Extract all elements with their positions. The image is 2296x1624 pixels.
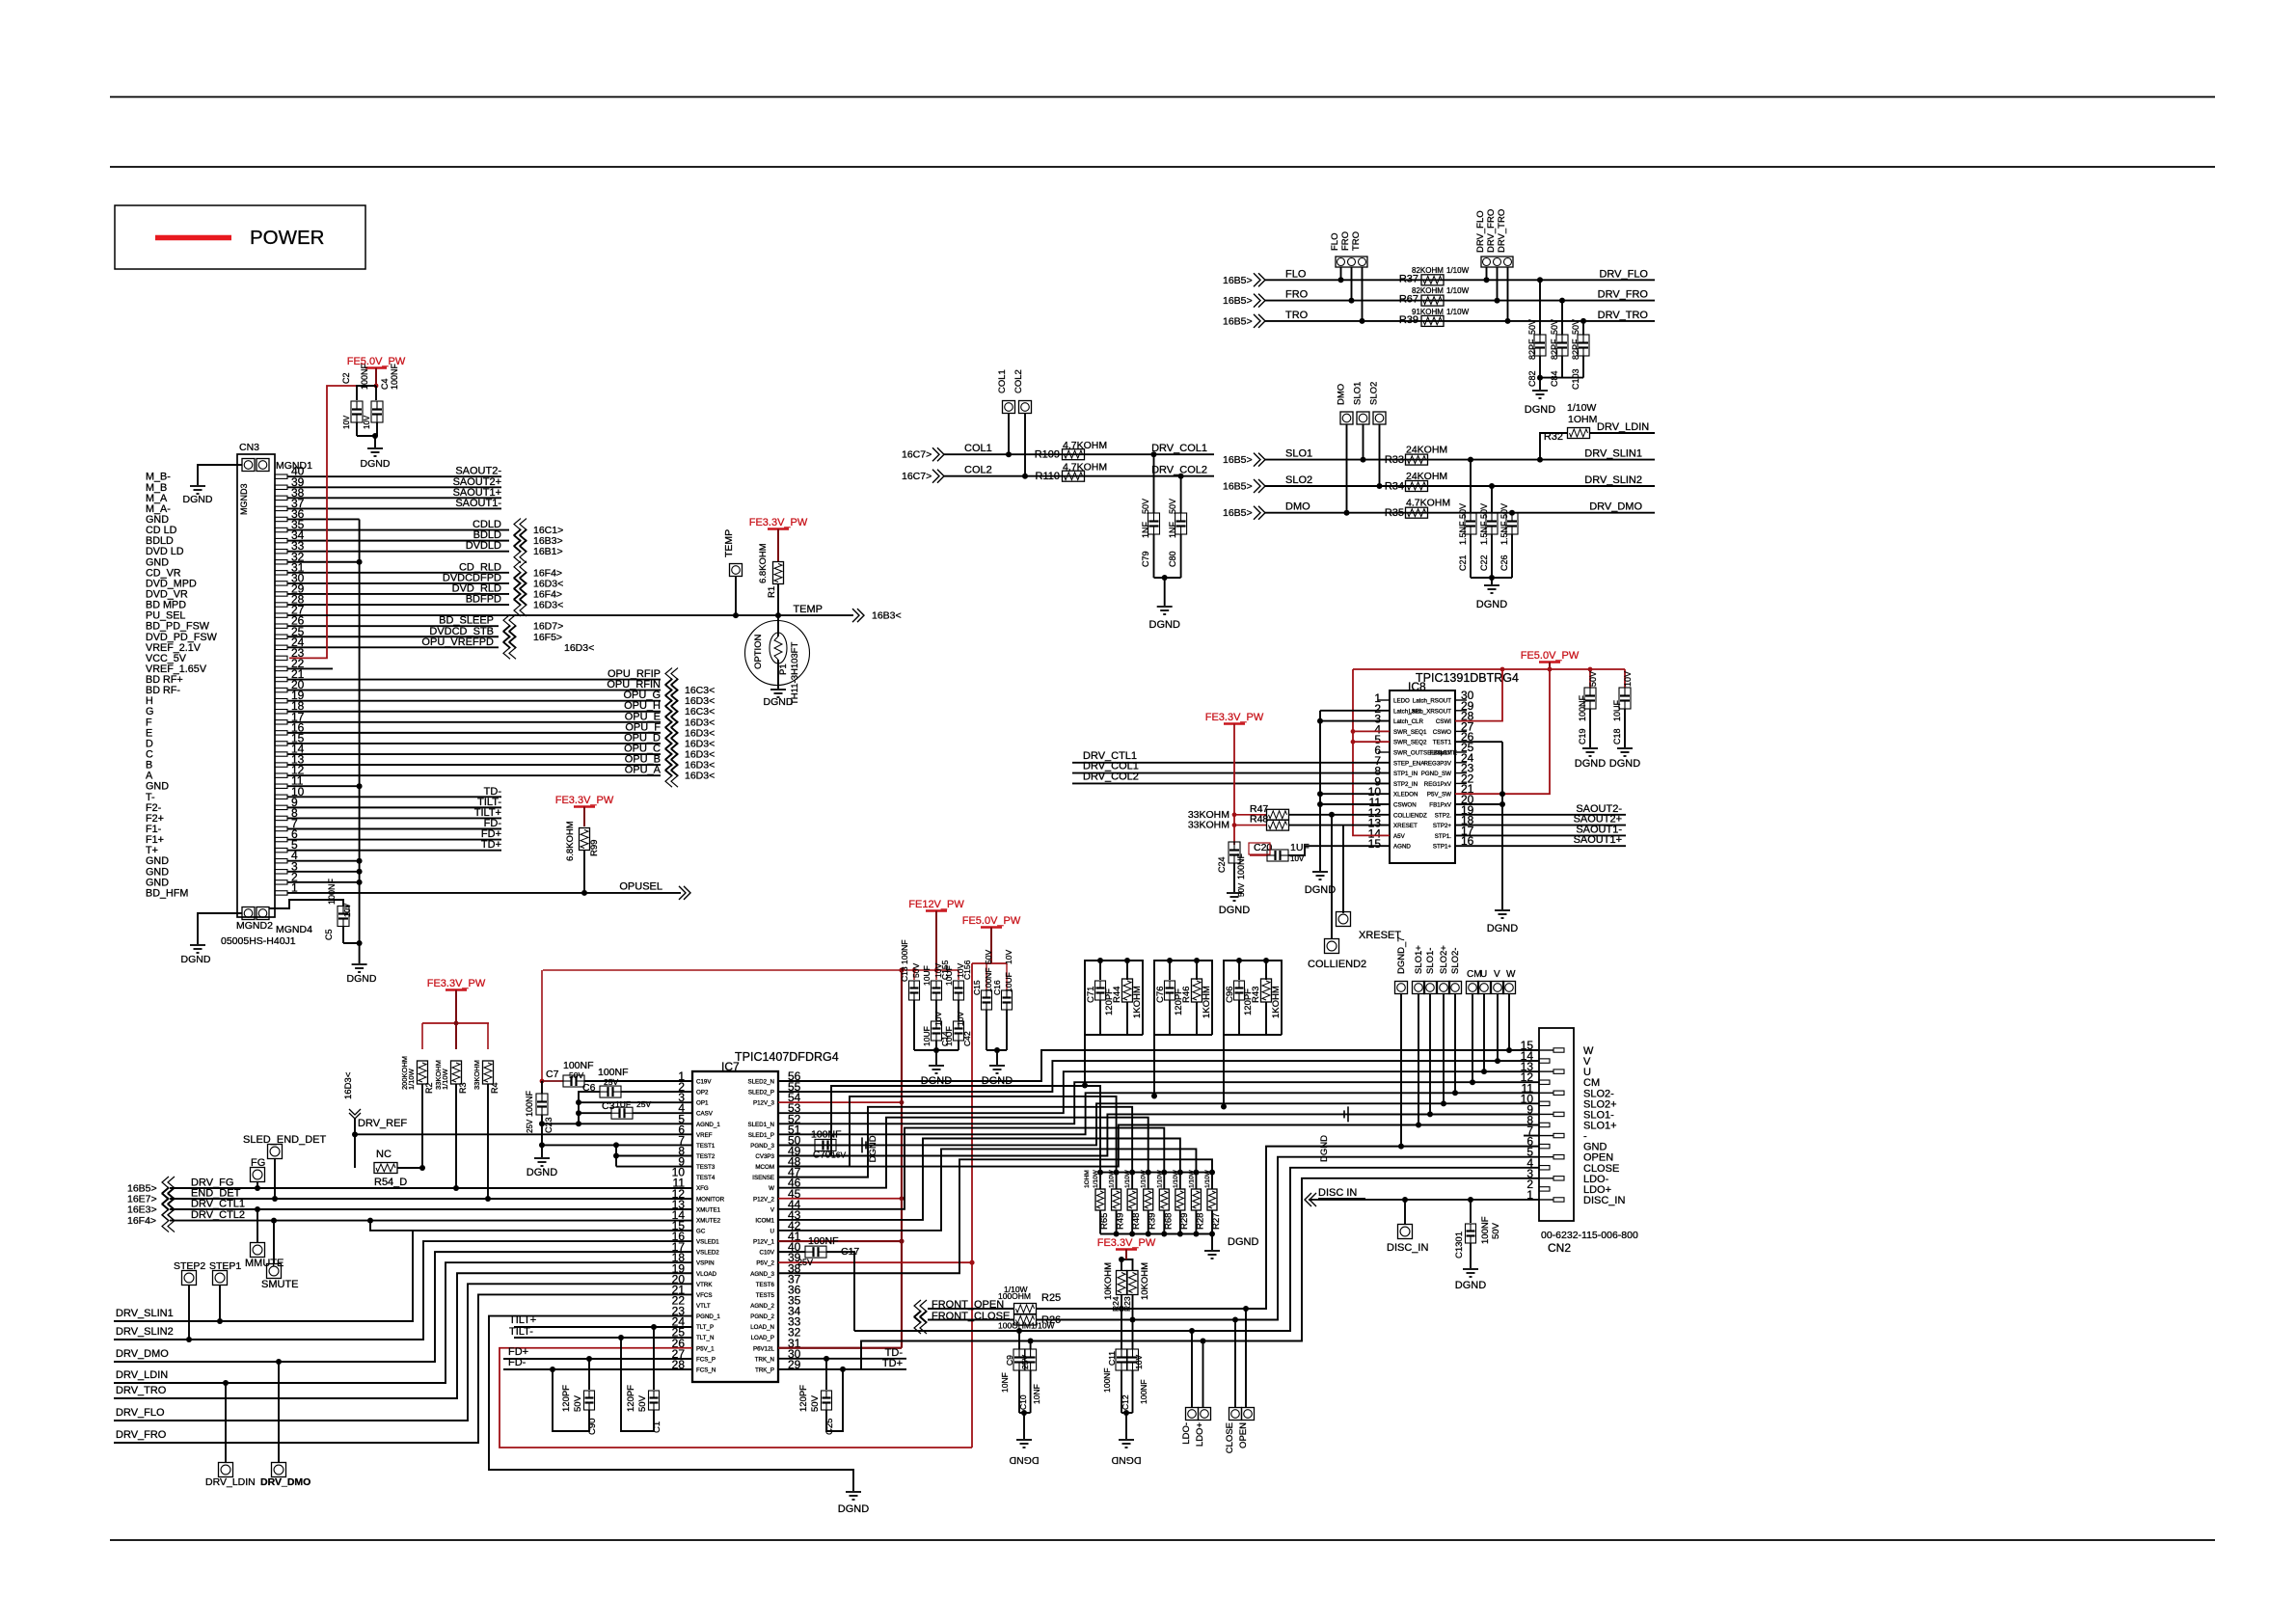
capacitor C79 1NF <box>1153 454 1155 513</box>
svg-text:DRV_TRO: DRV_TRO <box>1598 310 1649 321</box>
svg-text:25V: 25V <box>604 1077 618 1087</box>
svg-text:FE3.3V_PW: FE3.3V_PW <box>1205 712 1264 723</box>
capacitor C96 120PF <box>1224 961 1282 1035</box>
svg-text:CSWON: CSWON <box>1393 802 1417 809</box>
svg-text:SLED_END_DET: SLED_END_DET <box>243 1134 326 1146</box>
svg-text:SLED2_P: SLED2_P <box>748 1090 774 1096</box>
pad CM <box>1467 982 1479 994</box>
connector CN3 pin 37 stub and label M_A- <box>275 506 287 510</box>
capacitor C2 <box>357 386 376 400</box>
svg-text:SLED2_N: SLED2_N <box>747 1079 774 1086</box>
svg-text:VFCS: VFCS <box>696 1292 713 1299</box>
svg-text:16B5>: 16B5> <box>1223 454 1253 466</box>
svg-text:DGND: DGND <box>1609 758 1640 770</box>
svg-text:91KOHM: 91KOHM <box>1412 308 1444 316</box>
svg-text:XRESET: XRESET <box>1359 930 1401 941</box>
svg-text:CLOSE: CLOSE <box>1225 1422 1235 1453</box>
svg-text:16D3<: 16D3< <box>533 600 563 611</box>
capacitor C70 100NF <box>778 1144 815 1146</box>
svg-text:R35: R35 <box>1385 507 1404 519</box>
wire FRO row <box>1265 300 1655 302</box>
wire R32 to DRV_LDIN <box>1589 432 1655 434</box>
wire CDLD from CN3 pin 35 <box>287 529 509 531</box>
connector CN3 pin 29 stub and label DVD_VR <box>275 592 287 596</box>
svg-text:P5V_SW: P5V_SW <box>1427 792 1451 798</box>
svg-text:50V: 50V <box>984 950 993 964</box>
svg-text:DRV_COL2: DRV_COL2 <box>1083 771 1139 782</box>
svg-text:10V: 10V <box>1004 950 1013 964</box>
svg-text:DRV_SLIN1: DRV_SLIN1 <box>116 1308 174 1319</box>
capacitor C21 1.5NF <box>1470 460 1472 513</box>
svg-text:33KOHM: 33KOHM <box>1188 820 1229 831</box>
ground DGND below C5 <box>352 963 367 965</box>
svg-text:FE3.3V_PW: FE3.3V_PW <box>1097 1237 1156 1249</box>
sheet arrow DISC_IN <box>1310 1193 1316 1206</box>
svg-text:C19V: C19V <box>696 1079 712 1086</box>
resistor R39 1OHM <box>1146 1170 1151 1176</box>
svg-text:TD+: TD+ <box>882 1358 903 1369</box>
wire LDO+ bus <box>861 1178 1539 1369</box>
svg-text:DGND: DGND <box>1476 599 1507 610</box>
svg-text:16V: 16V <box>831 1150 846 1159</box>
ground DGND below 12V caps <box>935 1050 937 1065</box>
svg-text:STP1_IN: STP1_IN <box>1393 771 1418 777</box>
svg-text:DRV_DMO: DRV_DMO <box>1589 501 1642 513</box>
pad SLO2 <box>1373 412 1386 424</box>
svg-text:C12: C12 <box>1121 1394 1130 1410</box>
wire TEST3 row <box>616 1166 692 1168</box>
svg-text:FD-: FD- <box>508 1357 527 1368</box>
wire SAOUT1+ from CN3 pin 38 <box>287 497 501 499</box>
svg-text:R3: R3 <box>458 1082 468 1094</box>
svg-text:33KOHM: 33KOHM <box>434 1060 443 1090</box>
svg-text:C42: C42 <box>962 1031 972 1046</box>
svg-text:SLO1-: SLO1- <box>1425 948 1436 974</box>
wire red branch IC8 pin5 <box>1353 741 1390 743</box>
connector CN3 pin 34 stub and label BDLD <box>275 538 287 542</box>
wire bus IC7 pin 55 to CN2 pin 14 <box>778 1061 1539 1092</box>
resistor R28 1OHM <box>1193 1170 1199 1176</box>
svg-text:LOAD_P: LOAD_P <box>751 1335 774 1341</box>
svg-text:120PF: 120PF <box>626 1385 636 1412</box>
wire MGND2 to ground <box>198 913 242 944</box>
op-amp U IC7 TPIC1407DFDRG4 body <box>692 1071 778 1382</box>
svg-text:1OHM: 1OHM <box>1568 414 1597 425</box>
wires header1 to rows <box>1340 267 1342 280</box>
svg-text:TEST5: TEST5 <box>756 1292 775 1299</box>
wire OPEN to CN2 <box>1037 1147 1539 1309</box>
svg-text:XFG: XFG <box>696 1185 709 1192</box>
wire SLO1 row <box>1265 459 1655 461</box>
connector CN3 pin 17 stub and label F <box>275 720 287 724</box>
svg-text:DGND: DGND <box>1111 1454 1141 1466</box>
wire FD+ from CN3 pin 6 <box>287 839 501 841</box>
resistor R43 1KOHM <box>1261 979 1272 1002</box>
pad SLED_END_DET <box>268 1145 283 1159</box>
svg-text:DGND: DGND <box>347 973 377 985</box>
wire pad SLO1+ to CN2 row <box>1418 994 1419 1125</box>
svg-text:6.8KOHM: 6.8KOHM <box>565 821 576 861</box>
svg-text:16B5>: 16B5> <box>1223 481 1253 493</box>
op-amp U IC8 TPIC1391DBTRG4 body <box>1390 690 1455 863</box>
resistor R46 1KOHM <box>1192 979 1202 1002</box>
svg-text:1/10W: 1/10W <box>1141 1169 1148 1188</box>
capacitor C24 100NF <box>1229 842 1240 863</box>
svg-text:DISC IN: DISC IN <box>1318 1187 1357 1199</box>
svg-text:C18: C18 <box>1612 728 1622 744</box>
svg-text:C156: C156 <box>962 960 972 980</box>
svg-text:C26: C26 <box>1499 555 1509 571</box>
svg-text:R24: R24 <box>1111 1296 1121 1312</box>
svg-text:R43: R43 <box>1251 987 1261 1003</box>
wire bus IC7 pin 52 to CN2 pin 12 <box>778 1082 1539 1123</box>
svg-text:R68: R68 <box>1163 1213 1174 1230</box>
connector CN3 pin 25 stub and label DVD_PD_FSW <box>275 635 287 638</box>
svg-text:100NF: 100NF <box>360 363 369 390</box>
svg-text:50V: 50V <box>810 1394 821 1412</box>
wire SAOUT2+ from IC8 <box>1455 825 1626 826</box>
wire COL1 row <box>944 453 1214 455</box>
svg-text:C82: C82 <box>1527 370 1537 387</box>
pad DISC_IN <box>1404 1200 1406 1225</box>
resistor R29 1OHM <box>1177 1170 1183 1176</box>
svg-text:50V: 50V <box>1237 882 1246 897</box>
svg-text:16D3<: 16D3< <box>685 771 715 782</box>
svg-text:TEST1: TEST1 <box>696 1143 716 1150</box>
pad XRESET <box>1342 826 1344 913</box>
ground DGND below 5V caps <box>996 1050 998 1065</box>
svg-text:TPIC1407DFDRG4: TPIC1407DFDRG4 <box>735 1050 839 1064</box>
svg-text:C13: C13 <box>900 966 909 982</box>
connector CN3 pin 4 stub and label GND <box>275 859 287 863</box>
svg-text:120PF: 120PF <box>798 1385 809 1412</box>
svg-text:R109: R109 <box>1035 449 1060 461</box>
resistor R32 1OHM <box>1568 428 1590 439</box>
svg-text:STP1+: STP1+ <box>1433 844 1451 851</box>
capacitor C103 82PF <box>1582 321 1584 335</box>
wire OPU_G from CN3 pin 19 <box>287 700 661 702</box>
capacitor C80 1NF <box>1180 476 1182 513</box>
svg-text:COLLIEND2: COLLIEND2 <box>1308 959 1366 970</box>
svg-text:16D3<: 16D3< <box>343 1071 354 1099</box>
capacitor C18 10UF <box>1624 669 1626 688</box>
svg-text:OPU_VREFPD: OPU_VREFPD <box>421 636 494 648</box>
svg-text:AGND: AGND <box>1393 844 1411 851</box>
svg-text:TEST4: TEST4 <box>696 1175 716 1181</box>
svg-text:SLO2: SLO2 <box>1369 382 1380 405</box>
svg-text:SLO1: SLO1 <box>1353 382 1364 405</box>
svg-text:16B5>: 16B5> <box>1223 275 1253 286</box>
connector CN3 pin 6 stub and label F1+ <box>275 837 287 841</box>
svg-text:05005HS-H40J1: 05005HS-H40J1 <box>221 935 296 947</box>
thermistor P1 OPTION circle <box>745 621 810 686</box>
capacitor C84 82PF <box>1561 301 1563 335</box>
svg-text:XMUTE1: XMUTE1 <box>696 1206 721 1213</box>
resistor R4 33KOHM <box>487 1023 489 1049</box>
svg-text:00-6232-115-006-800: 00-6232-115-006-800 <box>1541 1230 1638 1241</box>
svg-text:VSPIN: VSPIN <box>696 1260 715 1267</box>
svg-text:16D3<: 16D3< <box>564 642 594 654</box>
capacitor C6 100NF <box>600 1086 621 1097</box>
svg-text:Latch_RSOUT: Latch_RSOUT <box>1413 698 1451 705</box>
svg-text:SMUTE: SMUTE <box>261 1279 299 1290</box>
connector CN3 pin 7 stub and label F1- <box>275 826 287 830</box>
capacitor C19 100NF <box>1589 669 1591 688</box>
svg-text:REG1PxV: REG1PxV <box>1424 781 1452 788</box>
resistor R44 1KOHM <box>1122 979 1133 1002</box>
svg-text:FB3p3V: FB3p3V <box>1430 750 1452 757</box>
svg-text:FE5.0V_PW: FE5.0V_PW <box>962 915 1021 927</box>
capacitor C26 1.5NF <box>1511 512 1513 514</box>
svg-text:1KOHM: 1KOHM <box>1271 986 1282 1018</box>
connector CN3 pin 1 stub and label BD_HFM <box>275 891 287 895</box>
ground DGND below C9 C10 flipped <box>1016 1439 1032 1441</box>
wires header2 to rows <box>1486 267 1488 280</box>
ground DGND below SLO caps <box>1491 578 1493 584</box>
svg-text:DRV_LDIN: DRV_LDIN <box>1597 421 1649 433</box>
svg-text:OP1: OP1 <box>696 1100 709 1107</box>
pad W <box>1503 982 1516 994</box>
svg-text:LOAD_N: LOAD_N <box>750 1324 774 1331</box>
svg-text:MGND2: MGND2 <box>236 920 273 932</box>
svg-text:15: 15 <box>1368 837 1382 851</box>
svg-text:FE5.0V_PW: FE5.0V_PW <box>1521 650 1580 662</box>
svg-text:1NF: 1NF <box>1141 521 1150 538</box>
svg-text:TILT-: TILT- <box>509 1326 533 1338</box>
pad U <box>1478 982 1491 994</box>
ground DGND under IC8 right <box>1495 909 1510 911</box>
ground DGND below C23 <box>534 1157 550 1159</box>
capacitor C76 120PF <box>1154 961 1212 1035</box>
sheet arrow OPUSEL <box>679 886 686 900</box>
connector CN3 pin 5 stub and label T+ <box>275 848 287 852</box>
svg-text:XMUTE2: XMUTE2 <box>696 1217 721 1224</box>
capacitor C3 1UF <box>611 1107 633 1119</box>
svg-text:CN2: CN2 <box>1548 1241 1571 1255</box>
capacitor C23 100NF <box>541 1081 543 1094</box>
wires pads to rows <box>1346 424 1348 513</box>
svg-text:DGND: DGND <box>764 696 794 708</box>
wire OPU_E from CN3 pin 17 <box>287 721 661 723</box>
wire TILT- from CN3 pin 9 <box>287 806 501 808</box>
wire bus IC7 pin 53 to CN2 pin 13 <box>778 1071 1539 1113</box>
svg-text:1/10W: 1/10W <box>1446 266 1470 275</box>
wire SAOUT1- from IC8 <box>1455 834 1626 836</box>
svg-text:REG3P3V: REG3P3V <box>1423 760 1451 767</box>
svg-text:R27: R27 <box>1211 1213 1222 1230</box>
svg-text:C25: C25 <box>824 1419 835 1435</box>
connector CN3 pin 35 stub and label CD LD <box>275 528 287 531</box>
resistor bank 1OHM top rail <box>1100 1172 1212 1174</box>
wire bank bottom rail to ground <box>1100 1233 1212 1235</box>
svg-text:DGND: DGND <box>1009 1454 1039 1466</box>
svg-text:50V: 50V <box>1527 319 1537 335</box>
svg-text:16C7>: 16C7> <box>902 471 932 482</box>
svg-text:C17: C17 <box>841 1246 859 1258</box>
svg-text:AGND_2: AGND_2 <box>750 1303 774 1310</box>
wire LDO- bus <box>854 1168 1539 1331</box>
svg-text:50V: 50V <box>573 1394 583 1412</box>
wire PGND_1 riser and ground run <box>489 1316 853 1491</box>
svg-text:DGND: DGND <box>1575 758 1606 770</box>
svg-text:OPU_A: OPU_A <box>625 765 662 776</box>
resistor R54_D NC <box>354 1134 356 1168</box>
svg-text:SLO1: SLO1 <box>1285 448 1312 460</box>
ground DGND below P1 <box>770 689 786 690</box>
svg-text:50V: 50V <box>1168 499 1177 514</box>
connector CN3 body <box>237 454 275 917</box>
wire BDLD from CN3 pin 34 <box>287 540 509 542</box>
svg-text:50V: 50V <box>1571 319 1580 335</box>
wire OPU_A from CN3 pin 12 <box>287 774 661 776</box>
svg-text:DRV_COL1: DRV_COL1 <box>1151 443 1207 454</box>
connector CN2 body <box>1539 1028 1574 1221</box>
wire SAOUT1- from CN3 pin 37 <box>287 507 501 509</box>
svg-text:DRV_DMO: DRV_DMO <box>260 1476 311 1488</box>
resistor R67 82KOHM <box>1421 295 1444 306</box>
svg-text:1/10W: 1/10W <box>1156 1169 1163 1188</box>
svg-text:R23: R23 <box>1122 1296 1132 1312</box>
capacitor C90 120PF <box>588 1359 590 1390</box>
capacitor C10 10NF <box>1030 1341 1032 1350</box>
capacitor C4 <box>375 386 377 400</box>
wire TD+ from CN3 pin 5 <box>287 850 501 852</box>
svg-text:VREF: VREF <box>696 1132 713 1139</box>
svg-text:DISC_IN: DISC_IN <box>1583 1195 1625 1206</box>
wire DVDCD_STB from CN3 pin 25 <box>287 636 499 637</box>
svg-text:VTRK: VTRK <box>696 1282 713 1288</box>
pad MGND2 <box>242 907 255 920</box>
svg-text:10V: 10V <box>363 415 371 429</box>
wire SAOUT2+ from CN3 pin 39 <box>287 486 501 488</box>
wire red 5V rail IC8 <box>1353 668 1625 670</box>
wire DRV_FG row <box>170 1187 692 1189</box>
svg-text:10UF: 10UF <box>1612 699 1622 721</box>
svg-text:DRV_LDIN: DRV_LDIN <box>205 1476 256 1488</box>
pad LDO+ bottom <box>1202 1341 1204 1408</box>
wire red to IC8 pin28 CSWI <box>1455 669 1502 721</box>
wire OPU_VREFPD from CN3 pin 24 <box>287 646 499 648</box>
resistor R99 6.8KOHM <box>580 828 590 851</box>
svg-text:ICOM1: ICOM1 <box>755 1217 774 1224</box>
svg-text:R28: R28 <box>1195 1213 1205 1230</box>
wire pad SLO2+ to CN2 row <box>1443 994 1445 1104</box>
wire 12V caps bottom rail <box>914 1049 959 1051</box>
svg-text:4.7KOHM: 4.7KOHM <box>1063 462 1107 474</box>
svg-text:P12V_1: P12V_1 <box>753 1239 775 1246</box>
svg-text:P6V12L: P6V12L <box>753 1345 775 1352</box>
resistor R37 82KOHM <box>1421 275 1444 285</box>
wire pad DGND_7 to CN2 row <box>1400 994 1402 1147</box>
svg-text:W: W <box>1506 969 1516 980</box>
resistor R26 100OHM <box>1014 1314 1037 1325</box>
svg-text:BD_HFM: BD_HFM <box>146 887 188 899</box>
wire IC8 right bus to DGND <box>1501 742 1503 909</box>
svg-text:16B1>: 16B1> <box>533 546 563 557</box>
svg-text:VSLED2: VSLED2 <box>696 1250 719 1257</box>
svg-text:TRK_N: TRK_N <box>755 1356 774 1363</box>
wire caps to ground <box>357 435 377 437</box>
wire OPU_B from CN3 pin 13 <box>287 764 661 766</box>
wire TRK_N TD- <box>778 1358 906 1360</box>
svg-text:1.5NF: 1.5NF <box>1458 521 1468 545</box>
sheet ref 16B3 for TEMP <box>852 609 859 622</box>
svg-text:100NF: 100NF <box>1578 694 1587 721</box>
svg-text:33KOHM: 33KOHM <box>473 1060 481 1090</box>
svg-text:PGND_SW: PGND_SW <box>1421 771 1451 777</box>
svg-text:STP1.: STP1. <box>1435 833 1451 840</box>
svg-text:COL2: COL2 <box>964 465 992 476</box>
resistor R27 1OHM <box>1209 1170 1215 1176</box>
svg-text:DVDLD: DVDLD <box>466 540 501 552</box>
pad SLO1+ <box>1413 982 1425 994</box>
wire FD- from CN3 pin 7 <box>287 828 501 830</box>
svg-text:P12V_3: P12V_3 <box>753 1100 775 1107</box>
resistor R39 91KOHM <box>1421 315 1444 326</box>
capacitor C9 10NF <box>1018 1331 1020 1349</box>
svg-text:50V: 50V <box>911 963 921 978</box>
svg-text:DGND: DGND <box>183 494 213 505</box>
svg-text:10UF: 10UF <box>944 965 954 986</box>
pad COLLIEND2 <box>1331 815 1333 939</box>
svg-text:Latch_XRSOUT: Latch_XRSOUT <box>1409 708 1452 715</box>
wire page rule top <box>110 96 2215 98</box>
ground DGND below C2 C4 <box>367 447 383 449</box>
svg-text:1/10W: 1/10W <box>1446 286 1470 295</box>
svg-text:DMO: DMO <box>1337 384 1347 405</box>
wire bus IC7 pin 51 to CN2 pin 11 <box>778 1093 1539 1134</box>
wire CLOSE to CN2 <box>1037 1157 1539 1320</box>
svg-text:TEST2: TEST2 <box>696 1153 716 1160</box>
svg-text:DRV_SLIN2: DRV_SLIN2 <box>116 1326 174 1338</box>
connector CN3 pin 19 stub and label H <box>275 698 287 702</box>
sheet arrow FRONT_CLOSE <box>914 1311 921 1334</box>
wire pad CM to CN2 row <box>1472 994 1473 1083</box>
capacitor C11 100NF <box>1116 1349 1127 1370</box>
svg-text:120PF: 120PF <box>561 1385 572 1412</box>
svg-text:DRV_FRO: DRV_FRO <box>1486 209 1497 253</box>
svg-text:SWR_SEQ1: SWR_SEQ1 <box>1393 729 1427 736</box>
svg-text:Latch_CLR: Latch_CLR <box>1393 718 1423 725</box>
svg-text:CV3P3: CV3P3 <box>755 1153 774 1160</box>
svg-text:C71: C71 <box>1086 987 1096 1003</box>
svg-text:VTLT: VTLT <box>696 1303 711 1310</box>
svg-text:XLEDON: XLEDON <box>1393 792 1418 798</box>
wire page rule bottom <box>110 1539 2215 1541</box>
connector CN3 pin 32 stub and label GND <box>275 560 287 564</box>
connector CN3 pin 13 stub and label B <box>275 763 287 767</box>
svg-text:50V: 50V <box>1491 1222 1501 1239</box>
wire TILT+ from CN3 pin 8 <box>287 817 501 819</box>
svg-text:MONITOR: MONITOR <box>696 1196 725 1203</box>
capacitor C25 120PF <box>825 1359 827 1390</box>
svg-text:R54_D: R54_D <box>374 1177 407 1188</box>
svg-text:R110: R110 <box>1036 471 1060 482</box>
svg-text:DRV_FLO: DRV_FLO <box>1475 210 1486 253</box>
svg-text:100NF: 100NF <box>390 363 399 390</box>
pad MGND1 <box>242 459 255 472</box>
wire C11 C12 join to ground <box>1121 1412 1133 1414</box>
connector CN3 pin 26 stub and label BD_PD_FSW <box>275 624 287 628</box>
svg-text:XRESET: XRESET <box>1393 823 1418 829</box>
svg-text:AGND_1: AGND_1 <box>696 1122 720 1128</box>
svg-text:25V: 25V <box>636 1099 651 1109</box>
svg-text:C10: C10 <box>1018 1394 1028 1410</box>
svg-text:DMO: DMO <box>1285 501 1310 513</box>
wire STEP2 to DRV_SLIN2 <box>188 1285 190 1340</box>
wire DMO row <box>1265 512 1655 514</box>
wire pad W to CN2 row <box>1508 994 1510 1051</box>
